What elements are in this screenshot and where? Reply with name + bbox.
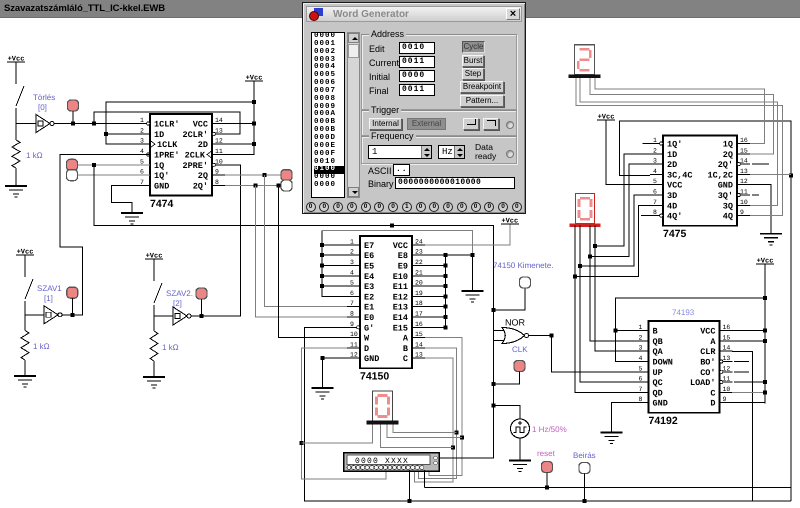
wire resistor to ground: [15, 168, 17, 186]
wire Vcc to 1D (pin 2): [106, 102, 254, 134]
wire D net to display pin: [301, 424, 372, 443]
svg-text:21: 21: [415, 269, 423, 276]
svg-text:15: 15: [740, 147, 748, 154]
svg-text:2: 2: [639, 334, 643, 341]
ground (E inputs): [462, 291, 484, 302]
wire B output (pin 14) to instrument: [419, 348, 457, 479]
svg-text:2: 2: [653, 147, 657, 154]
+Vcc supply (Törlés): [7, 56, 25, 64]
junction: [70, 313, 74, 317]
svg-text:20: 20: [415, 280, 423, 287]
svg-text:7475: 7475: [663, 228, 687, 240]
wire +Vcc down: [764, 264, 766, 298]
junction D net: [299, 441, 303, 445]
junction E-bus: [320, 264, 324, 268]
svg-text:16: 16: [740, 137, 748, 144]
wire to 1CLK (pin 3): [106, 134, 150, 144]
counter IC U4 74192: [636, 321, 733, 427]
svg-text:5: 5: [140, 158, 144, 165]
svg-text:GND: GND: [154, 181, 169, 191]
wire 2Q net down to E1 (pin 7): [265, 175, 348, 307]
ground (SZAV1): [14, 376, 36, 387]
+Vcc supply (7474): [245, 75, 263, 83]
svg-text:D: D: [710, 399, 715, 409]
svg-text:B: B: [403, 344, 408, 354]
wire E-bus left: [322, 230, 347, 296]
switch SZAV2 [2]: [154, 259, 162, 316]
svg-text:QC: QC: [653, 378, 663, 388]
wire 7475 GND pin 12 to ground: [750, 185, 771, 234]
junction: [763, 296, 767, 300]
close button: [506, 8, 520, 20]
svg-text:4Q: 4Q: [723, 212, 733, 222]
svg-text:11: 11: [740, 189, 748, 196]
svg-text:[1]: [1]: [44, 294, 53, 303]
wire CLK net down: [493, 384, 495, 405]
svg-text:1D: 1D: [667, 150, 677, 160]
buffer gate (SZAV2): [173, 307, 191, 325]
svg-text:VCC: VCC: [393, 241, 408, 251]
wire Vcc net to 2CLK (pin 11): [225, 144, 254, 154]
svg-text:BO': BO': [700, 358, 715, 368]
svg-text:E6: E6: [364, 251, 374, 261]
terminal circles: [306, 202, 316, 212]
buffer gate (SZAV1): [44, 306, 62, 324]
red probe 2Q: [281, 170, 292, 181]
svg-text:E4: E4: [364, 272, 374, 282]
svg-text:1Q: 1Q: [723, 140, 733, 150]
ground (74150): [312, 388, 334, 399]
svg-text:1CLR': 1CLR': [154, 120, 180, 130]
wire E-bus right pin 16: [425, 326, 445, 328]
svg-text:2Q': 2Q': [718, 160, 733, 170]
wire Beiras probe stem: [584, 474, 586, 502]
svg-text:2Q: 2Q: [723, 150, 733, 160]
svg-text:4Q': 4Q': [667, 212, 682, 222]
wire A output (pin 15) to instrument: [425, 338, 462, 476]
wire E-bus right pin 21: [425, 275, 445, 277]
svg-text:16: 16: [723, 324, 731, 331]
wire Vcc net to 2D (pin 12): [225, 124, 254, 145]
wire D pin9: [732, 402, 765, 404]
svg-text:0000 XXXX: 0000 XXXX: [355, 457, 409, 466]
svg-text:SZAV2.: SZAV2.: [166, 289, 193, 298]
junction A net: [460, 436, 464, 440]
junction QA: [593, 244, 597, 248]
svg-text:18: 18: [415, 300, 423, 307]
wire Törlés node to buffer: [16, 123, 36, 125]
svg-text:9: 9: [350, 321, 354, 328]
svg-text:12: 12: [215, 138, 223, 145]
7-segment display (middle, 0): [576, 194, 595, 224]
svg-text:1C,2C: 1C,2C: [707, 170, 733, 180]
red probe 1Q: [67, 159, 78, 170]
red probe SZAV2: [196, 288, 207, 299]
wire Vcc down to VCC pin 14: [253, 102, 255, 124]
svg-text:7: 7: [350, 300, 354, 307]
svg-text:10: 10: [740, 199, 748, 206]
svg-text:A: A: [403, 334, 409, 344]
junction 2Q: [263, 173, 267, 177]
svg-text:2CLK: 2CLK: [185, 150, 206, 160]
scrollbar: [347, 32, 360, 198]
svg-text:C: C: [710, 388, 715, 398]
Trigger group: [361, 110, 517, 136]
ground (SZAV2): [143, 377, 165, 388]
wire line2 E-ground net: [322, 230, 472, 255]
wire E-bus to pin 4: [322, 275, 347, 277]
svg-text:5: 5: [653, 178, 657, 185]
svg-text:UP: UP: [653, 368, 663, 378]
wire NOR input 2: [494, 340, 505, 342]
svg-text:13: 13: [215, 127, 223, 134]
resistor R1 1 kOhm (Törlés): [12, 140, 20, 168]
svg-text:5: 5: [350, 280, 354, 287]
svg-text:9: 9: [740, 209, 744, 216]
svg-text:DOWN: DOWN: [653, 358, 673, 368]
wire resistor to ground: [153, 361, 155, 377]
wire 4D from QD net: [575, 205, 650, 276]
svg-text:1D: 1D: [154, 130, 164, 140]
+Vcc supply (SZAV2): [145, 253, 163, 261]
svg-text:2PRE': 2PRE': [182, 161, 208, 171]
ground (74192): [600, 433, 622, 444]
wire 1Q (pin 5) to probe: [77, 164, 150, 166]
junction 1D/1CLK: [104, 132, 108, 136]
ground (clock): [509, 461, 531, 472]
junction E-bus right: [443, 305, 447, 309]
wire E-bus to pin 2: [322, 254, 347, 256]
wire 2Q (pin 9) to probe: [225, 174, 281, 176]
wire NOR output to UP (pin 5): [551, 336, 635, 372]
wire Törlés net over IC to 2CLR (pin 13): [94, 112, 240, 134]
wire 2Q' (pin 8) to probe: [225, 184, 281, 186]
wire display pin3 to A net: [387, 424, 462, 438]
svg-text:11: 11: [723, 376, 731, 383]
svg-text:8: 8: [653, 209, 657, 216]
wire probe stem: [201, 299, 203, 316]
svg-text:16: 16: [415, 321, 423, 328]
wire 1Q' (pin 6) to probe: [77, 174, 150, 176]
svg-text:E3: E3: [364, 282, 374, 292]
svg-text:7: 7: [140, 179, 144, 186]
buffer gate (Törlés): [36, 115, 54, 133]
wire +Vcc to 7475 VCC pin 5: [606, 120, 650, 185]
wire SZAV2 node to buffer: [154, 315, 173, 317]
wire to B (pin 1): [615, 330, 635, 332]
wire instrument terminal to L3: [409, 470, 411, 501]
junction E-bus right: [443, 284, 447, 288]
junction 2D: [252, 142, 256, 146]
svg-text:1CLK: 1CLK: [157, 140, 178, 150]
junction E-bus: [320, 274, 324, 278]
wire +Vcc to DOWN (pin4): [615, 298, 765, 362]
svg-text:3C,4C: 3C,4C: [667, 170, 693, 180]
svg-text:E9: E9: [398, 262, 408, 272]
svg-text:W: W: [364, 334, 370, 344]
svg-text:1 kΩ: 1 kΩ: [26, 151, 43, 160]
wire QA up: [595, 226, 636, 352]
junction C net: [451, 446, 455, 450]
svg-text:4: 4: [639, 355, 643, 362]
wire probe stem: [72, 111, 74, 124]
wire E-bus to pin 1: [322, 244, 347, 246]
svg-text:CLR: CLR: [700, 347, 716, 357]
wire 74150 VCC pin24 to +Vcc: [425, 224, 510, 245]
wire 2PRE (pin10) down to SZAV2 output: [188, 165, 241, 316]
svg-text:1: 1: [140, 117, 144, 124]
svg-text:1 Hz/50%: 1 Hz/50%: [532, 425, 567, 434]
svg-text:E12: E12: [393, 292, 408, 302]
junction E-bus right: [443, 315, 447, 319]
svg-text:1Q': 1Q': [154, 171, 169, 181]
svg-text:[0]: [0]: [38, 103, 47, 112]
svg-text:9: 9: [723, 396, 727, 403]
svg-text:CO': CO': [700, 368, 715, 378]
wire E-bus to pin 5: [322, 285, 347, 287]
svg-text:12: 12: [350, 352, 358, 359]
junction VCC pin14: [252, 122, 256, 126]
svg-text:Beirás: Beirás: [573, 451, 596, 460]
wire 1Q (pin16) to display-2: [595, 77, 765, 144]
svg-text:1: 1: [639, 324, 643, 331]
red probe reset: [542, 462, 553, 473]
svg-text:13: 13: [723, 355, 731, 362]
wire clock to ground: [519, 438, 521, 461]
svg-text:2: 2: [140, 127, 144, 134]
svg-text:7: 7: [653, 199, 657, 206]
svg-text:QD: QD: [653, 388, 663, 398]
svg-text:E13: E13: [393, 303, 408, 313]
mode buttons: [462, 41, 485, 53]
wire joining L2 and L3 right ends: [790, 488, 792, 502]
svg-text:8: 8: [215, 179, 219, 186]
ground (7475): [760, 234, 782, 245]
svg-text:D: D: [364, 344, 369, 354]
wire node to resistor: [15, 124, 17, 141]
wire L3 up to 74192 CLR: [732, 351, 752, 501]
wire G' (pin 9) down to bottom line L3: [305, 327, 791, 501]
svg-text:17: 17: [415, 311, 423, 318]
wire pin 14 stub to Vcc net: [225, 123, 254, 125]
svg-text:G': G': [364, 323, 374, 333]
svg-text:12: 12: [723, 365, 731, 372]
7-segment display (top, 2): [574, 45, 594, 75]
wire display pin2 to C net: [381, 424, 454, 448]
svg-text:74150 Kimenete.: 74150 Kimenete.: [493, 261, 554, 270]
svg-text:74193: 74193: [672, 308, 695, 317]
wire buffer output to 7474 pin 1 (1CLR): [54, 123, 150, 125]
+Vcc supply (74150): [501, 218, 519, 226]
NOR gate: [502, 328, 529, 344]
junction 1Q: [92, 163, 96, 167]
junction clock: [492, 403, 496, 407]
svg-text:QB: QB: [653, 337, 663, 347]
resistor R3 1 kOhm (SZAV2): [150, 331, 158, 361]
wire SZAV1 buffer output: [62, 314, 82, 316]
svg-text:10: 10: [350, 331, 358, 338]
wire E-bus right pin 22: [425, 265, 445, 267]
svg-text:E14: E14: [393, 313, 408, 323]
svg-text:4: 4: [140, 148, 144, 155]
junction: [321, 356, 325, 360]
svg-text:14: 14: [740, 158, 748, 165]
wire NOR input net vertical: [493, 310, 495, 384]
svg-text:10: 10: [215, 158, 223, 165]
svg-text:3D: 3D: [667, 191, 677, 201]
svg-text:reset: reset: [537, 449, 556, 458]
svg-text:2D: 2D: [198, 140, 208, 150]
svg-text:23: 23: [415, 249, 423, 256]
svg-text:8: 8: [350, 311, 354, 318]
junction E-ground: [471, 253, 475, 257]
svg-text:2Q': 2Q': [193, 181, 208, 191]
svg-text:E0: E0: [364, 313, 374, 323]
wire 2D from QB net: [590, 164, 650, 256]
svg-text:3Q: 3Q: [723, 201, 733, 211]
junction NOR out: [549, 334, 553, 338]
svg-text:6: 6: [653, 189, 657, 196]
svg-text:E11: E11: [393, 282, 408, 292]
svg-text:6: 6: [350, 290, 354, 297]
svg-text:4: 4: [350, 269, 354, 276]
svg-text:15: 15: [415, 331, 423, 338]
stub 1Q' pin 1: [643, 143, 650, 145]
svg-text:E7: E7: [364, 241, 374, 251]
latch IC U3 7475: [650, 136, 750, 241]
stub 4Q' pin 8: [641, 215, 650, 217]
wire 1C2C pin 13 to right net: [750, 173, 791, 175]
white probe 1Q': [67, 170, 78, 181]
svg-text:11: 11: [215, 148, 223, 155]
resistor R2 1 kOhm (SZAV1): [21, 331, 29, 361]
wire C pin10: [732, 391, 765, 393]
svg-text:2D: 2D: [667, 160, 677, 170]
junction: [443, 253, 447, 257]
svg-text:6: 6: [140, 169, 144, 176]
svg-text:1: 1: [350, 238, 354, 245]
svg-text:Törlés: Törlés: [33, 93, 55, 102]
dialog icon: [309, 8, 323, 21]
svg-text:E5: E5: [364, 262, 374, 272]
svg-text:1Q': 1Q': [667, 140, 682, 150]
svg-text:8: 8: [639, 396, 643, 403]
wire NOR input 1: [494, 330, 505, 332]
svg-text:7474: 7474: [150, 198, 174, 210]
white probe Beiras: [579, 463, 590, 474]
wire GND pin12 to ground: [323, 358, 347, 388]
wire 74192 GND to ground: [611, 403, 635, 433]
wire QD up: [575, 226, 636, 393]
junction: [92, 122, 96, 126]
junction: [763, 390, 767, 394]
svg-text:C: C: [403, 354, 408, 364]
wire E8-E15 bus: [444, 255, 446, 327]
wire E-bus right pin 17: [425, 316, 445, 318]
svg-text:3: 3: [350, 259, 354, 266]
junction: [763, 329, 767, 333]
svg-text:[2]: [2]: [173, 299, 182, 308]
wire to output probe: [494, 288, 526, 310]
junction reset: [545, 486, 549, 490]
wire E-bus to pin 3: [322, 265, 347, 267]
junction Vcc/1D net: [252, 100, 256, 104]
junction: [200, 314, 204, 318]
junction E-bus right: [443, 264, 447, 268]
+Vcc supply (74192): [756, 258, 774, 266]
svg-text:2CLR': 2CLR': [182, 130, 208, 140]
svg-text:E2: E2: [364, 292, 374, 302]
svg-text:B: B: [653, 327, 658, 337]
junction: [763, 339, 767, 343]
wire to ground: [472, 255, 474, 291]
svg-text:3: 3: [140, 138, 144, 145]
svg-text:14: 14: [215, 117, 223, 124]
junction: [71, 122, 75, 126]
svg-text:13: 13: [415, 352, 423, 359]
wire 1Q net down to line1: [94, 165, 392, 226]
wire instrument terminal to L2: [423, 470, 425, 488]
+Vcc supply (7475): [597, 114, 615, 122]
wire display pin4 to B net: [393, 424, 457, 433]
svg-text:GND: GND: [653, 399, 668, 409]
wire 2Q (pin15) to display-2: [590, 77, 773, 154]
svg-text:E15: E15: [393, 323, 408, 333]
red probe SZAV1: [67, 287, 78, 298]
svg-text:9: 9: [215, 169, 219, 176]
svg-text:LOAD': LOAD': [690, 378, 716, 388]
wire E-bus right pin 18: [425, 306, 445, 308]
wire SZAV1 node to buffer: [25, 314, 44, 316]
wire reset probe stem: [546, 473, 548, 488]
white probe 2Q': [281, 180, 292, 191]
junction E-bus right: [443, 325, 447, 329]
junction B: [613, 329, 617, 333]
wire SZAV2 buffer output: [191, 315, 241, 317]
junction QC: [578, 264, 582, 268]
svg-text:5: 5: [639, 365, 643, 372]
svg-text:1Q: 1Q: [154, 161, 164, 171]
wire 4Q (pin9) to display-2: [576, 77, 782, 216]
svg-text:7: 7: [639, 386, 643, 393]
wire resistor to ground: [24, 360, 26, 376]
svg-text:VCC: VCC: [667, 181, 682, 191]
svg-text:11: 11: [350, 341, 358, 348]
word generator instrument icon: [344, 453, 440, 472]
wire probe stem: [71, 298, 73, 315]
stub CO' pin 12: [734, 371, 749, 373]
wire 3D from QC net: [580, 195, 650, 266]
wire NOR output: [529, 335, 551, 337]
wire L2 up to 7475 3C4C: [619, 121, 791, 488]
svg-text:6: 6: [639, 376, 643, 383]
+Vcc supply (SZAV1): [16, 249, 34, 257]
wire GND pin 7 to ground: [112, 185, 150, 213]
stub 2Q' pin 14: [752, 163, 769, 165]
svg-text:22: 22: [415, 259, 423, 266]
wire QB up: [590, 226, 636, 341]
junction 1C2C: [789, 173, 793, 177]
svg-text:14: 14: [415, 341, 423, 348]
clock source 1 Hz: [511, 419, 530, 438]
svg-text:A: A: [710, 337, 716, 347]
junction QD: [573, 274, 577, 278]
wire QC up: [580, 226, 636, 383]
junction QB: [588, 254, 592, 258]
svg-text:SZAV1: SZAV1: [37, 284, 62, 293]
wire CLK net to instrument: [440, 405, 494, 458]
svg-text:19: 19: [415, 290, 423, 297]
